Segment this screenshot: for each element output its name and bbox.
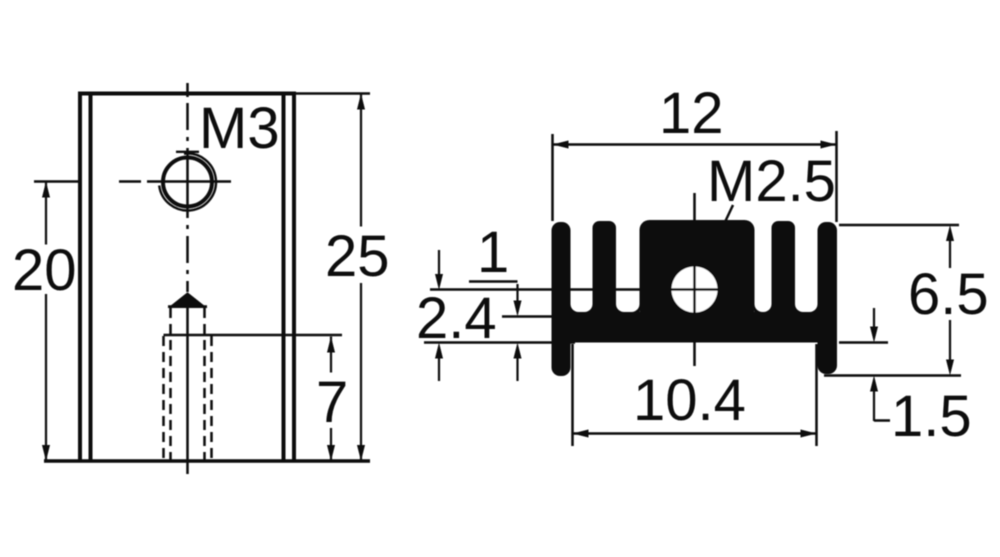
- 10.4 left extension line: [571, 344, 574, 446]
- profile center boss: [640, 220, 755, 320]
- 6.5 top extension line: [839, 224, 959, 227]
- svg-text:M3: M3: [199, 96, 280, 161]
- 1 dim: lower shaft and up arrowhead: [516, 358, 518, 381]
- 10.4 dim right arrowhead: [801, 430, 817, 438]
- horizontal centerline through circle: [147, 180, 231, 183]
- 1.5 arrow foot: [874, 419, 890, 422]
- vertical centerline dash-dot to circle: [186, 103, 189, 130]
- left edge outer line: [78, 94, 82, 462]
- 7 dimension: up arrowhead: [327, 337, 335, 353]
- bottom edge with extensions: [44, 459, 370, 462]
- left edge inner line: [89, 94, 93, 462]
- top extension line to 25 dim: [296, 92, 370, 95]
- vertical centerline dot below circle: [186, 225, 189, 229]
- M2.5 hole in boss: [672, 267, 718, 313]
- 12 dim right extension line: [835, 131, 838, 222]
- profile right tab: [818, 222, 838, 374]
- hole horizontal centerline (also 2.4 extension): [430, 288, 718, 291]
- 12 dim left arrowhead: [553, 141, 569, 149]
- hidden thread major line left (dashed): [162, 336, 165, 460]
- 7 dimension: down arrowhead: [327, 445, 335, 461]
- svg-text:7: 7: [316, 370, 348, 435]
- vertical centerline dot: [186, 137, 189, 141]
- svg-text:10.4: 10.4: [633, 368, 746, 433]
- 1.5 base-bottom extension line: [839, 341, 888, 344]
- profile fin 2: [772, 221, 796, 321]
- 6.5 bottom / 1.5 top extension line (tab bottom): [824, 374, 961, 377]
- 10.4 dim left arrowhead: [573, 430, 589, 438]
- 25 dimension: upper shaft: [360, 94, 362, 227]
- 1 dim: upper shaft and down arrowhead: [516, 284, 518, 302]
- vertical centerline through circle: [186, 148, 189, 218]
- 10.4 right extension line: [815, 344, 818, 446]
- svg-text:1: 1: [477, 220, 509, 285]
- label 1 underline: [469, 280, 518, 283]
- svg-text:6.5: 6.5: [908, 262, 989, 327]
- svg-text:M2.5: M2.5: [707, 149, 836, 214]
- profile base bar: [570, 312, 818, 343]
- profile fin 1: [593, 221, 617, 321]
- right edge inner line: [282, 94, 286, 462]
- vertical centerline dash reaching drill tip: [186, 281, 189, 292]
- 6.5 dim: lower shaft and down arrowhead: [949, 320, 951, 360]
- M2.5 leader line: [725, 205, 733, 222]
- drill tip base line: [168, 305, 207, 308]
- M3 thread arc top stub: [176, 151, 199, 153]
- 12 dim right arrowhead: [821, 141, 837, 149]
- 1.5 dim: lower shaft and up arrowhead: [873, 391, 875, 421]
- drill tip chevron (filled cone): [171, 294, 205, 308]
- 2.4 dim: lower shaft and up arrowhead: [438, 358, 440, 381]
- slot bottom fillets: [571, 304, 579, 312]
- 20 dimension: upper shaft: [45, 182, 47, 245]
- 12 dim left extension line: [551, 134, 554, 221]
- svg-text:25: 25: [325, 224, 390, 289]
- horizontal centerline left segment (20 dim extension): [34, 180, 80, 183]
- M3 thread arc (outer, open): [159, 153, 216, 210]
- base bottom extension line (2.4 / 1 dim): [424, 341, 575, 344]
- 12 dimension line: [553, 143, 837, 146]
- svg-text:2.4: 2.4: [416, 286, 497, 351]
- 20 dimension: up arrowhead: [42, 182, 50, 198]
- hidden thread minor line right (dashed): [203, 308, 206, 460]
- svg-text:12: 12: [659, 81, 724, 146]
- 20 dimension: lower shaft: [45, 294, 47, 461]
- hole vertical centerline: [693, 193, 696, 366]
- 6.5 dim: upper shaft and up arrowhead: [949, 240, 951, 268]
- vertical centerline dot: [186, 270, 189, 274]
- 7 dimension: upper shaft: [330, 337, 332, 373]
- right edge outer line: [292, 94, 296, 462]
- base top extension line (1 dim): [502, 315, 553, 318]
- svg-text:1.5: 1.5: [891, 384, 972, 449]
- 25 dimension: lower shaft: [360, 283, 362, 461]
- profile left tab: [552, 222, 571, 376]
- vertical centerline above top edge: [186, 83, 189, 97]
- horizontal centerline dash: [119, 180, 141, 183]
- 25 dimension: up arrowhead: [357, 94, 365, 110]
- 20 dimension: down arrowhead: [42, 445, 50, 461]
- vertical centerline dash: [186, 236, 189, 263]
- hidden thread minor line left (dashed): [169, 308, 172, 460]
- 10.4 dimension line: [573, 432, 817, 435]
- top edge: [78, 92, 296, 96]
- 7 dimension: lower shaft: [330, 428, 332, 461]
- hidden thread major line right (dashed): [210, 336, 213, 460]
- M3 tapped hole: inner circle: [163, 158, 212, 207]
- vertical centerline solid through hole to below bottom: [186, 297, 189, 474]
- thread depth line (7 dim extension): [164, 334, 343, 337]
- 25 dimension: down arrowhead: [357, 445, 365, 461]
- 2.4 dim: upper shaft and down arrowhead: [438, 250, 440, 275]
- 1.5 dim: upper shaft and down arrowhead: [873, 308, 875, 327]
- svg-text:20: 20: [12, 238, 77, 303]
